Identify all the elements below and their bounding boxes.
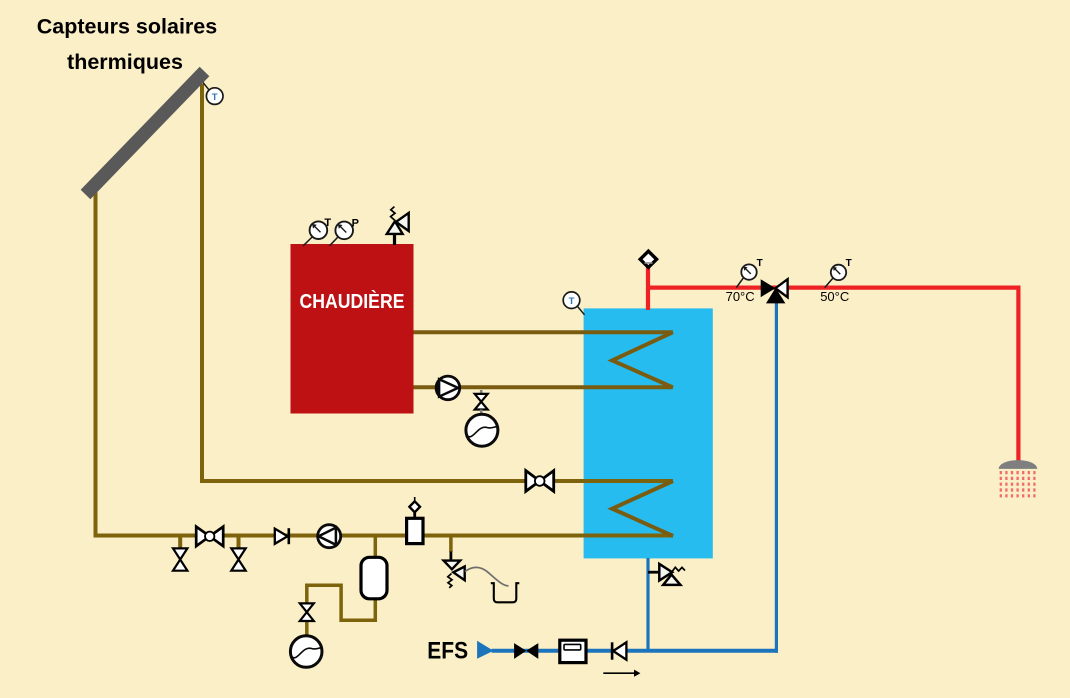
wire: solar return pipe (collector bottom to tank lower coil bottom) — [96, 191, 674, 536]
title: Capteurs solaires thermiques — [37, 15, 217, 75]
svg-text:P: P — [352, 217, 359, 229]
gauge P on boiler — [330, 217, 359, 245]
sensor T2 on tank — [563, 292, 584, 315]
shut-off valve on EFS line — [514, 643, 538, 659]
svg-text:thermiques: thermiques — [67, 50, 183, 74]
wire: red DHW pipe from tank top to vent — [646, 267, 650, 311]
valve above drain circle — [300, 603, 314, 621]
wire: drain stub 1 — [178, 536, 182, 550]
coil: lower heat exchanger zigzag — [612, 481, 673, 536]
water meter — [560, 640, 586, 662]
drain valve 2 on solar return — [231, 548, 245, 570]
boiler CHAUDIERE — [291, 244, 414, 414]
air vent diamond on tank top — [640, 251, 656, 267]
safety valve on solar loop with funnel — [444, 536, 520, 603]
air separator with vent on solar return — [407, 497, 423, 544]
pump (boiler circulator) — [436, 376, 460, 400]
EFS supply triangle — [477, 641, 493, 659]
svg-text:Capteurs solaires: Capteurs solaires — [37, 15, 217, 39]
svg-text:CHAUDIÈRE: CHAUDIÈRE — [300, 290, 405, 313]
svg-text:T: T — [212, 92, 218, 103]
expansion vessel — [361, 557, 387, 599]
check valve on EFS line — [612, 642, 626, 659]
3-way mixing valve — [761, 279, 788, 303]
svg-text:EFS: EFS — [427, 637, 468, 664]
wire: drain stub 2 — [237, 536, 241, 550]
balancing valve (bowtie with circle) on solar supply — [526, 471, 554, 492]
flow direction arrow — [603, 670, 640, 677]
wire: segment valve to drain circle — [305, 621, 309, 637]
safety relief group at tank bottom — [648, 564, 685, 585]
svg-text:T: T — [569, 296, 575, 307]
shower head — [999, 460, 1038, 469]
sensor T1 on collector — [203, 83, 223, 105]
temperature gauge 50C — [825, 258, 852, 288]
wire: blue pipe from mixing valve down and EFS horizontal — [775, 302, 778, 653]
gauge T on boiler — [303, 217, 331, 246]
temperature gauge 70C — [736, 258, 762, 288]
svg-text:T: T — [757, 258, 763, 269]
wire: blue pipe tank bottom to EFS line — [646, 558, 649, 651]
wire: solar supply pipe (collector top to tank lower coil top) — [202, 84, 673, 481]
svg-text:T: T — [324, 217, 331, 229]
wire: red DHW pipe to shower — [646, 288, 1018, 461]
solar collector panel — [86, 72, 205, 195]
wire: boiler circuit with upper heat exchanger coil — [413, 332, 673, 387]
drain circle (to sewer) under boiler pipe — [466, 414, 498, 446]
svg-text:70°C: 70°C — [726, 289, 755, 304]
wire: vessel bottom Z-path to drain circle — [307, 585, 376, 620]
storage tank (ballon) — [584, 308, 713, 558]
svg-text:50°C: 50°C — [820, 289, 849, 304]
wire: expansion vessel branch stub — [374, 536, 378, 559]
shut-off valve V1 (bowtie with circle) on solar return — [196, 527, 223, 547]
check valve on solar return — [275, 528, 289, 544]
drain circle (solar loop to sewer) — [290, 636, 322, 668]
drain valve under boiler pipe — [475, 390, 488, 415]
svg-text:T: T — [846, 258, 852, 269]
drain valve 1 on solar return — [173, 548, 187, 570]
shower spray — [1001, 471, 1035, 499]
safety valve on boiler — [387, 207, 409, 245]
pump (solar circulator) — [318, 525, 341, 548]
